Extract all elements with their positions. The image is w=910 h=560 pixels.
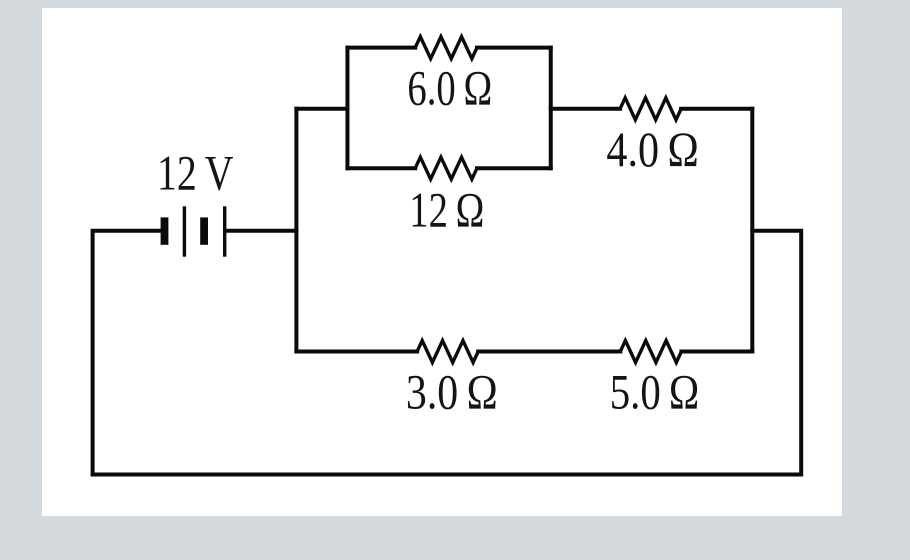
svg-text:6.0 Ω: 6.0 Ω [407,59,492,115]
svg-text:4.0 Ω: 4.0 Ω [606,121,698,177]
svg-text:3.0 Ω: 3.0 Ω [406,363,498,419]
svg-text:12 V: 12 V [157,145,234,201]
svg-text:12 Ω: 12 Ω [409,182,484,238]
svg-text:5.0 Ω: 5.0 Ω [610,363,700,419]
